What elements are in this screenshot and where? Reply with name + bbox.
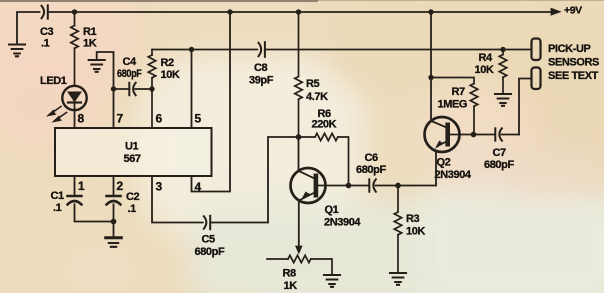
wire: C2 to ground node [113,204,115,221]
node: Q1 collector / R5 / R6 / C5 [296,134,302,140]
label R1 1K [83,26,97,50]
label R7 1MEG [438,86,468,111]
svg-text:10K: 10K [161,69,180,81]
wire: C1 to ground node [75,204,114,221]
svg-text:.1: .1 [128,203,137,215]
node: rail / R5 [296,9,301,14]
svg-text:SENSORS: SENSORS [548,57,599,69]
wire: U1 pin3 to C5 [152,176,203,223]
svg-text:1K: 1K [83,38,97,50]
wire: C8 to pick-up sensor line [267,49,532,51]
label +9V [564,5,582,17]
svg-text:Q1: Q1 [325,204,339,216]
label R4 10K [475,52,494,76]
background paper blotches (decorative) [0,0,140,85]
wire: U1 pin1 to C1 [74,176,76,196]
label R5 4.7K [306,78,328,103]
pin number 4 [195,180,202,194]
transistor Q1 2N3904 [291,137,349,246]
node: C1 C2 ground junction [111,219,117,225]
svg-text:Q2: Q2 [437,157,451,169]
svg-text:R2: R2 [161,57,175,69]
label Q2 2N3904 [435,157,472,182]
label C4 680pF [117,56,142,80]
svg-text:1K: 1K [284,280,298,292]
ground (left of C3) [9,45,25,57]
label U1 567 [124,141,141,166]
ground (under C1 C2) [106,222,122,247]
resistor R7 1MEG [431,78,478,135]
node: rail / Q2 collector riser [428,9,433,14]
pin number 3 [156,180,163,194]
pin number 8 [78,112,85,126]
capacitor C1 .1 [68,196,82,205]
svg-text:4: 4 [195,180,202,194]
svg-text:C2: C2 [126,191,140,203]
node: C6 / R3 / Q2 emitter [395,183,401,189]
svg-text:567: 567 [124,153,141,165]
svg-text:C3: C3 [40,26,54,38]
pin number 6 [156,112,163,126]
wire: LED1 cathode to U1 pin 8 [74,110,76,128]
svg-text:SEE TEXT: SEE TEXT [548,70,599,82]
capacitor C4 680pF [114,83,153,95]
label Q1 2N3904 [324,204,361,229]
resistor R4 10K [499,50,506,94]
svg-text:C7: C7 [493,147,507,159]
resistor R6 220K [299,133,349,185]
resistor R5 4.7K [295,12,302,137]
wire: U1 pin4 riser to +9V rail [192,12,231,192]
node: rail / pin4 riser [227,9,232,14]
wire: Q1 emitter wiper arrow onto R8 [296,246,302,254]
svg-text:C4: C4 [123,56,138,68]
label C5 680pF [195,234,225,259]
wire: +9V rail [50,11,551,13]
ground (right of R8) [324,275,340,287]
svg-text:39pF: 39pF [249,75,274,87]
svg-text:1MEG: 1MEG [438,99,468,111]
node: R4 top [500,47,505,52]
node: Q2 base / R7 / C7 [471,132,477,138]
ground (under R4) [495,94,511,106]
svg-text:+9V: +9V [564,5,582,17]
node: pin7 / C4 left [111,86,116,91]
svg-text:680pF: 680pF [117,68,142,80]
label C2 .1 [126,191,140,215]
pin number 5 [195,112,202,126]
svg-text:10K: 10K [406,226,425,238]
label C6 680pF [356,152,386,176]
svg-text:680pF: 680pF [484,159,514,171]
label C3 .1 [40,26,54,50]
svg-text:C1: C1 [51,190,65,202]
ground (pin 7) [89,60,105,72]
resistor R2 10K [148,50,155,129]
wire: C5 to Q1 collector node [212,137,299,223]
capacitor C8 39pF [259,42,265,57]
wire: lower sensor to C7 [519,79,532,135]
resistor R3 10K [394,186,401,273]
node: pin6 / C4 right [149,86,154,91]
label C1 .1 [51,190,65,214]
LED1 [62,86,86,110]
pick-up sensor upper element [532,39,541,61]
svg-text:R8: R8 [283,268,297,280]
label R3 10K [406,213,425,238]
svg-text:1: 1 [78,179,85,193]
svg-text:.1: .1 [41,38,50,50]
svg-text:220K: 220K [312,119,337,131]
label R8 1K [283,268,298,293]
svg-text:C5: C5 [202,234,216,246]
label C8 39pF [249,62,274,87]
svg-text:7: 7 [117,112,124,126]
svg-text:R7: R7 [452,86,466,98]
svg-text:LED1: LED1 [40,75,67,87]
svg-text:10K: 10K [475,64,494,76]
svg-text:680pF: 680pF [195,246,225,258]
LED1 emission arrows [48,107,67,122]
wire: left input drop to ground and to C3 [17,12,40,44]
svg-text:C6: C6 [365,152,379,164]
label PICK-UP SENSORS SEE TEXT [548,43,599,82]
capacitor C6 680pF [349,179,399,191]
node: pin5 riser [189,47,194,52]
transistor Q2 2N3904 [425,117,474,152]
op-amp U1 567 box [55,128,212,176]
svg-text:2: 2 [117,179,124,193]
svg-text:5: 5 [195,112,202,126]
node: Q1 base / R6 / C6 [346,183,352,189]
svg-text:R4: R4 [479,52,494,64]
wire: oscillator line R2 top to C8 [152,49,257,51]
capacitor C3 [42,5,48,18]
svg-text:8: 8 [78,112,85,126]
pin number 2 [117,179,124,193]
capacitor C7 680pF [474,128,520,140]
svg-text:2N3904: 2N3904 [324,217,361,229]
svg-text:3: 3 [156,180,163,194]
wire: node to U1 pin 5 [191,50,193,129]
svg-text:2N3904: 2N3904 [435,169,472,181]
svg-text:R5: R5 [306,78,320,90]
wire: ground hook to U1 pin 7 [97,52,114,128]
potentiometer R8 1K [267,255,332,274]
svg-text:.1: .1 [53,202,62,214]
pin number 7 [117,112,124,126]
label R2 10K [161,57,180,81]
svg-text:R1: R1 [83,26,97,38]
label C7 680pF [484,147,514,171]
svg-text:C8: C8 [254,62,268,74]
ground (under R3) [390,273,406,285]
+9V arrow head [551,8,561,15]
svg-text:U1: U1 [125,141,139,153]
resistor R1 1K [71,12,78,86]
node: rail / R1 [72,9,77,14]
label LED1 [40,75,67,87]
capacitor C2 .1 [107,196,121,205]
capacitor C5 680pF [204,216,210,229]
node: R7 pickoff on collector riser [428,75,433,80]
label R6 220K [312,108,337,131]
svg-text:6: 6 [156,112,163,126]
wire: U1 pin2 to C2 [113,176,115,196]
svg-text:680pF: 680pF [356,164,386,176]
wire: C6 node to Q2 emitter [398,151,436,186]
svg-text:PICK-UP: PICK-UP [548,43,590,55]
svg-text:R3: R3 [406,213,420,225]
pin number 1 [78,179,85,193]
svg-text:4.7K: 4.7K [306,91,328,103]
pick-up sensor lower element [532,68,541,90]
wire: +9V rail riser to Q2 collector [430,12,432,121]
